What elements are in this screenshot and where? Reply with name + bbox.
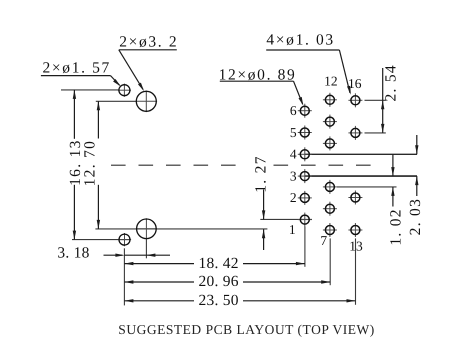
svg-text:4: 4 [290,147,297,162]
svg-text:2×ø3. 2: 2×ø3. 2 [119,33,178,50]
svg-text:3: 3 [290,168,297,183]
svg-text:12. 70: 12. 70 [82,140,99,187]
svg-text:23. 50: 23. 50 [198,292,238,309]
svg-text:12: 12 [324,73,338,88]
svg-text:2. 54: 2. 54 [383,64,400,102]
svg-text:7: 7 [320,233,327,248]
svg-text:1: 1 [289,222,296,237]
svg-text:2×ø1. 57: 2×ø1. 57 [43,60,111,77]
svg-text:13: 13 [349,239,363,254]
svg-text:5: 5 [290,125,297,140]
svg-text:4×ø1. 03: 4×ø1. 03 [266,31,334,48]
svg-text:1. 02: 1. 02 [387,208,404,246]
svg-text:2. 03: 2. 03 [407,198,424,236]
svg-text:2: 2 [290,190,297,205]
svg-text:6: 6 [290,103,297,118]
svg-text:3. 18: 3. 18 [57,244,89,261]
svg-text:20. 96: 20. 96 [198,273,238,290]
svg-text:1. 27: 1. 27 [252,155,269,193]
svg-text:16: 16 [348,76,362,91]
svg-text:SUGGESTED PCB LAYOUT (TOP VIEW: SUGGESTED PCB LAYOUT (TOP VIEW) [118,322,374,337]
svg-text:18. 42: 18. 42 [198,255,238,272]
